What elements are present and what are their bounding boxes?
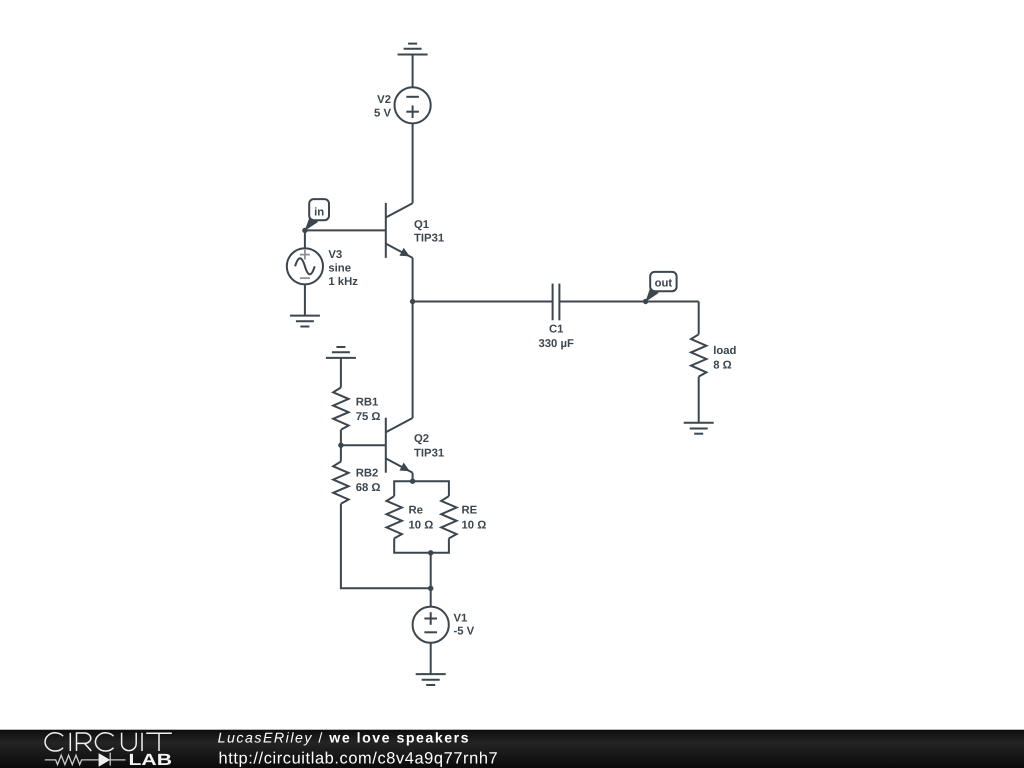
svg-text:out: out (655, 278, 673, 290)
capacitor C1 330uF (553, 284, 560, 321)
svg-text:in: in (314, 206, 324, 218)
svg-text:V3: V3 (328, 249, 342, 261)
svg-text:V1: V1 (454, 613, 468, 625)
wire bus node down to V1 node (430, 553, 432, 589)
ground (V3) (290, 316, 320, 327)
node dot (Q1 emitter / Q2 collector junction) (410, 299, 415, 304)
svg-text:RB1: RB1 (356, 397, 379, 409)
resistor Re 10 ohm (387, 496, 402, 538)
svg-text:load: load (713, 345, 736, 357)
svg-text:V2: V2 (377, 94, 391, 106)
resistor RB1 75 ohm (333, 388, 348, 430)
wire bottom bus and legs for Re/RE (394, 538, 449, 552)
svg-text:Re: Re (409, 505, 423, 517)
wire Q2 emitter to parallel resistor bus (412, 473, 414, 482)
wire V1 bottom to ground (430, 643, 432, 674)
ground (top of V2, inverted) (398, 44, 428, 55)
svg-text:75 Ω: 75 Ω (356, 411, 381, 423)
wire load to ground (698, 377, 700, 423)
node flag "in" (305, 217, 319, 231)
svg-text:LAB: LAB (129, 751, 173, 768)
wire RB2 bottom L-shape to V1 node (341, 504, 431, 589)
svg-text:68 Ω: 68 Ω (356, 482, 381, 494)
svg-text:http://circuitlab.com/c8v4a9q7: http://circuitlab.com/c8v4a9q77rnh7 (219, 749, 499, 767)
node dot (bottom bus) (428, 550, 433, 555)
wire base of Q1 to in node (305, 229, 386, 231)
wire in node to V3 top (304, 230, 306, 248)
wire Q1 emitter down to output node (412, 258, 414, 302)
svg-text:5 V: 5 V (374, 107, 391, 119)
wire corner down to load resistor (698, 302, 700, 335)
wire node down to Q2 collector (412, 302, 414, 419)
resistor RB2 68 ohm (333, 462, 348, 504)
svg-text:RB2: RB2 (356, 467, 379, 479)
wire node to V1 top (430, 588, 432, 606)
node dot (out) (643, 299, 648, 304)
node dot (emitter / Re RE bus) (410, 479, 415, 484)
wire emitter node to C1 left plate (413, 301, 553, 303)
node dot (RB1/RB2/base junction) (338, 443, 343, 448)
resistor load 8 ohm (691, 334, 706, 376)
svg-text:C1: C1 (549, 323, 563, 335)
ground (load) (684, 423, 714, 434)
ground (RB1 top, inverted) (326, 347, 356, 358)
node dot (in) (302, 228, 307, 233)
svg-text:8 Ω: 8 Ω (713, 360, 731, 372)
transistor Q2 TIP31 (386, 418, 413, 473)
wire top bus and legs for Re/RE (394, 481, 449, 496)
wire V2 bottom to Q1 collector (412, 123, 414, 203)
voltage source V2 5V (395, 87, 431, 123)
svg-text:RE: RE (462, 505, 478, 517)
wire node to Q2 base (341, 444, 386, 446)
svg-text:10 Ω: 10 Ω (462, 519, 487, 531)
transistor Q1 TIP31 (386, 203, 413, 258)
svg-text:10 Ω: 10 Ω (409, 519, 434, 531)
CircuitLab logo "CIRCUIT" outline letters (45, 733, 172, 751)
svg-text:TIP31: TIP31 (414, 232, 444, 244)
wire RB1 to RB2 through node (340, 430, 342, 462)
resistor RE 10 ohm (441, 496, 456, 538)
wire V3 bottom to ground (304, 284, 306, 315)
svg-text:Q1: Q1 (414, 219, 429, 231)
wire ground to RB1 (340, 358, 342, 388)
svg-text:TIP31: TIP31 (414, 448, 444, 460)
wire C1 right plate to load corner (559, 301, 698, 303)
svg-text:1 kHz: 1 kHz (328, 276, 358, 288)
node flag "out" (645, 288, 659, 302)
wire ground to V2 top (412, 55, 414, 88)
voltage source V3 sine (287, 248, 323, 284)
node dot (V1 top junction) (428, 586, 433, 591)
logo squiggle: wire - resistor - diode (45, 753, 126, 766)
svg-text:Q2: Q2 (414, 433, 429, 445)
svg-text:-5 V: -5 V (454, 626, 475, 638)
svg-text:sine: sine (328, 262, 351, 274)
ground (V1) (416, 674, 446, 685)
voltage source V1 -5V (413, 607, 449, 643)
svg-text:LucasERiley / we love speakers: LucasERiley / we love speakers (218, 731, 470, 747)
svg-text:330 µF: 330 µF (538, 338, 573, 350)
